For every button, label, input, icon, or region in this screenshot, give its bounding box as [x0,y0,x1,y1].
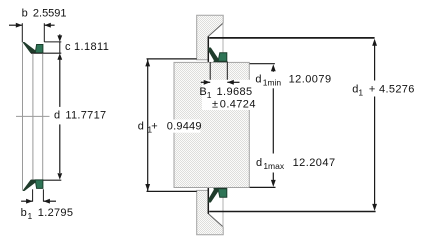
dimension d: up arrow below seal bottom [57,53,62,59]
svg-text:d11.7717: d11.7717 [54,109,106,121]
leader to d1 dimension (lower, thick) [209,211,375,213]
white box behind B1 labels [202,80,254,110]
label d1max 12.2047 [253,154,335,173]
dimension d1min: top leader from shaft corner [250,63,275,65]
chamfer edge line [208,23,223,36]
seal upper cross-section: lip diagonal [22,42,37,53]
centerline tick [16,115,50,117]
dimension d1min/d1max shared vertical (upper segment) [272,71,274,75]
cylindrical surface grey extension lines [23,43,43,190]
dimension b1: dimension line + arrows [21,200,56,202]
seal (upper, installed): lip diagonal [208,48,219,62]
label d1 + 4.5276 [348,81,414,97]
seal (upper, installed): body [218,53,227,62]
dimension b: arrowheads [16,23,51,28]
dimension c vertical through span [59,42,61,53]
bar right edge grey extension down to seal body [222,23,224,53]
housing bar inner face black line (lower) [207,188,209,214]
seal (upper, installed): bottom edge [214,60,227,62]
leader from bar bottom-left (lower) for d1+0.9449 [147,190,197,192]
seal (lower mirror): top edge [214,188,227,190]
housing bar (lower mirror) with chamfer [197,190,224,234]
dimension d1+4.5276: vertical lower segment [374,97,376,205]
seal (lower mirror): body [218,188,227,197]
dimension d1max: bottom leader from shaft corner [250,186,276,188]
housing bar inner face black line [207,36,209,62]
seal lower cross-section: lip diagonal [22,180,37,191]
housing bar (upper) with chamfer [197,15,224,60]
svg-text:b11.2795: b11.2795 [21,207,74,221]
seal upper cross-section: body [35,45,43,54]
dimension d: vertical line upper segment [59,59,61,107]
dimension d1+4.5276: down arrow at bottom [372,204,377,211]
white box behind d1+0.9449 label [149,120,200,133]
dimension b: dimension line with arrows [9,24,55,26]
dimension d1max: vertical lower segment [272,173,274,181]
svg-text:b2.5591: b2.5591 [22,8,67,20]
dimension d1+0.9449: down arrow [145,184,150,191]
label d1min 12.0079 [253,72,331,89]
dimension d1+4.5276: up arrow at top [372,39,377,46]
dimension d1min: up arrow [271,64,276,71]
dimension c: stub and down arrow [59,34,61,36]
seal lower cross-section: body [35,180,43,189]
dimension d1 vertical (middle segment) [272,88,274,153]
dimension d1+0.9449: up arrow [145,59,150,66]
dimension d1+4.5276: vertical upper segment [374,45,376,81]
dimension B1: dimension line + arrows [201,81,240,83]
seal (lower mirror): lip diagonal [208,188,219,202]
leader from bar bottom-left (upper) for d1+0.9449 [147,58,197,60]
seal lower cross-section: top edge line / d bottom leader [31,179,61,181]
c top leader [44,41,61,43]
svg-text:c1.1811: c1.1811 [65,41,109,53]
dimension d1+0.9449: vertical line [147,59,149,191]
dimension b1: extension lines [33,189,44,201]
seal upper cross-section: bottom edge line / c bottom leader [31,52,61,54]
dimension d: vertical line lower segment [59,124,61,173]
chamfer edge line (lower) [208,214,223,227]
shaft block (stippled) [174,62,249,187]
dimension b: extension lines [22,23,44,42]
leader to d1 dimension (upper, thick) [209,37,374,39]
dimension d: down arrow at bottom [57,173,62,179]
bar right edge grey extension (lower) [222,198,224,228]
dimension B1: extension lines through shaft [210,62,227,85]
dimension d1max: down arrow [271,180,276,187]
